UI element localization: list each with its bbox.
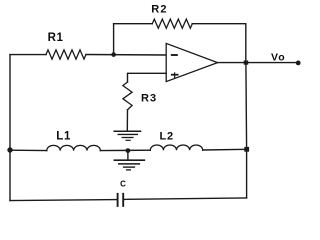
- node: left rail / L1 junction: [7, 147, 12, 152]
- op-amp U1: [166, 43, 217, 81]
- wire: op-amp output to Vo: [218, 62, 299, 64]
- wire: R2 down to output node: [245, 24, 247, 63]
- node: Vo terminal: [296, 61, 301, 66]
- wire: left rail: [9, 55, 11, 201]
- wire: left rail to L1: [10, 149, 47, 151]
- inductor L1: [47, 145, 101, 150]
- wire: bottom right to capacitor: [123, 198, 246, 200]
- ground (below R3): [114, 131, 140, 140]
- wire: R3 to ground: [126, 110, 128, 131]
- inductor L2: [150, 145, 202, 150]
- svg-text:L1: L1: [56, 130, 71, 142]
- wire: R2 left horizontal: [114, 23, 153, 25]
- svg-text:Vo: Vo: [271, 52, 286, 64]
- node: L1/L2/ground junction: [126, 148, 131, 153]
- wire: L1 to L2: [100, 149, 150, 151]
- wire: capacitor to bottom left: [10, 200, 118, 201]
- resistor R2: [152, 19, 192, 28]
- resistor R3: [123, 82, 132, 110]
- svg-text:R3: R3: [141, 92, 157, 104]
- wire: R2 right horizontal: [192, 23, 246, 25]
- wire: right rail: [245, 63, 248, 198]
- node: output junction: [244, 61, 249, 65]
- svg-text:C: C: [120, 180, 126, 189]
- wire: junction up to R2: [113, 24, 115, 55]
- wire: L2 to right rail: [203, 148, 247, 151]
- node: L2 / right rail junction: [244, 147, 249, 152]
- capacitor C: [118, 194, 124, 206]
- wire: top-left horizontal to R1: [10, 54, 46, 56]
- op-amp minus sign: [172, 54, 177, 56]
- wire: junction to ground stub: [127, 151, 129, 160]
- resistor R1: [46, 50, 86, 59]
- svg-text:R2: R2: [151, 4, 167, 16]
- svg-text:R1: R1: [48, 32, 64, 44]
- wire: R1 to op-amp inverting input: [86, 54, 166, 57]
- wire: R3 top to non-inverting input: [128, 73, 167, 82]
- node: junction R1/R2/inverting input: [111, 52, 116, 57]
- op-amp plus sign: [172, 74, 178, 76]
- ground (below L1/L2 junction): [114, 160, 144, 170]
- svg-text:L2: L2: [160, 130, 174, 142]
